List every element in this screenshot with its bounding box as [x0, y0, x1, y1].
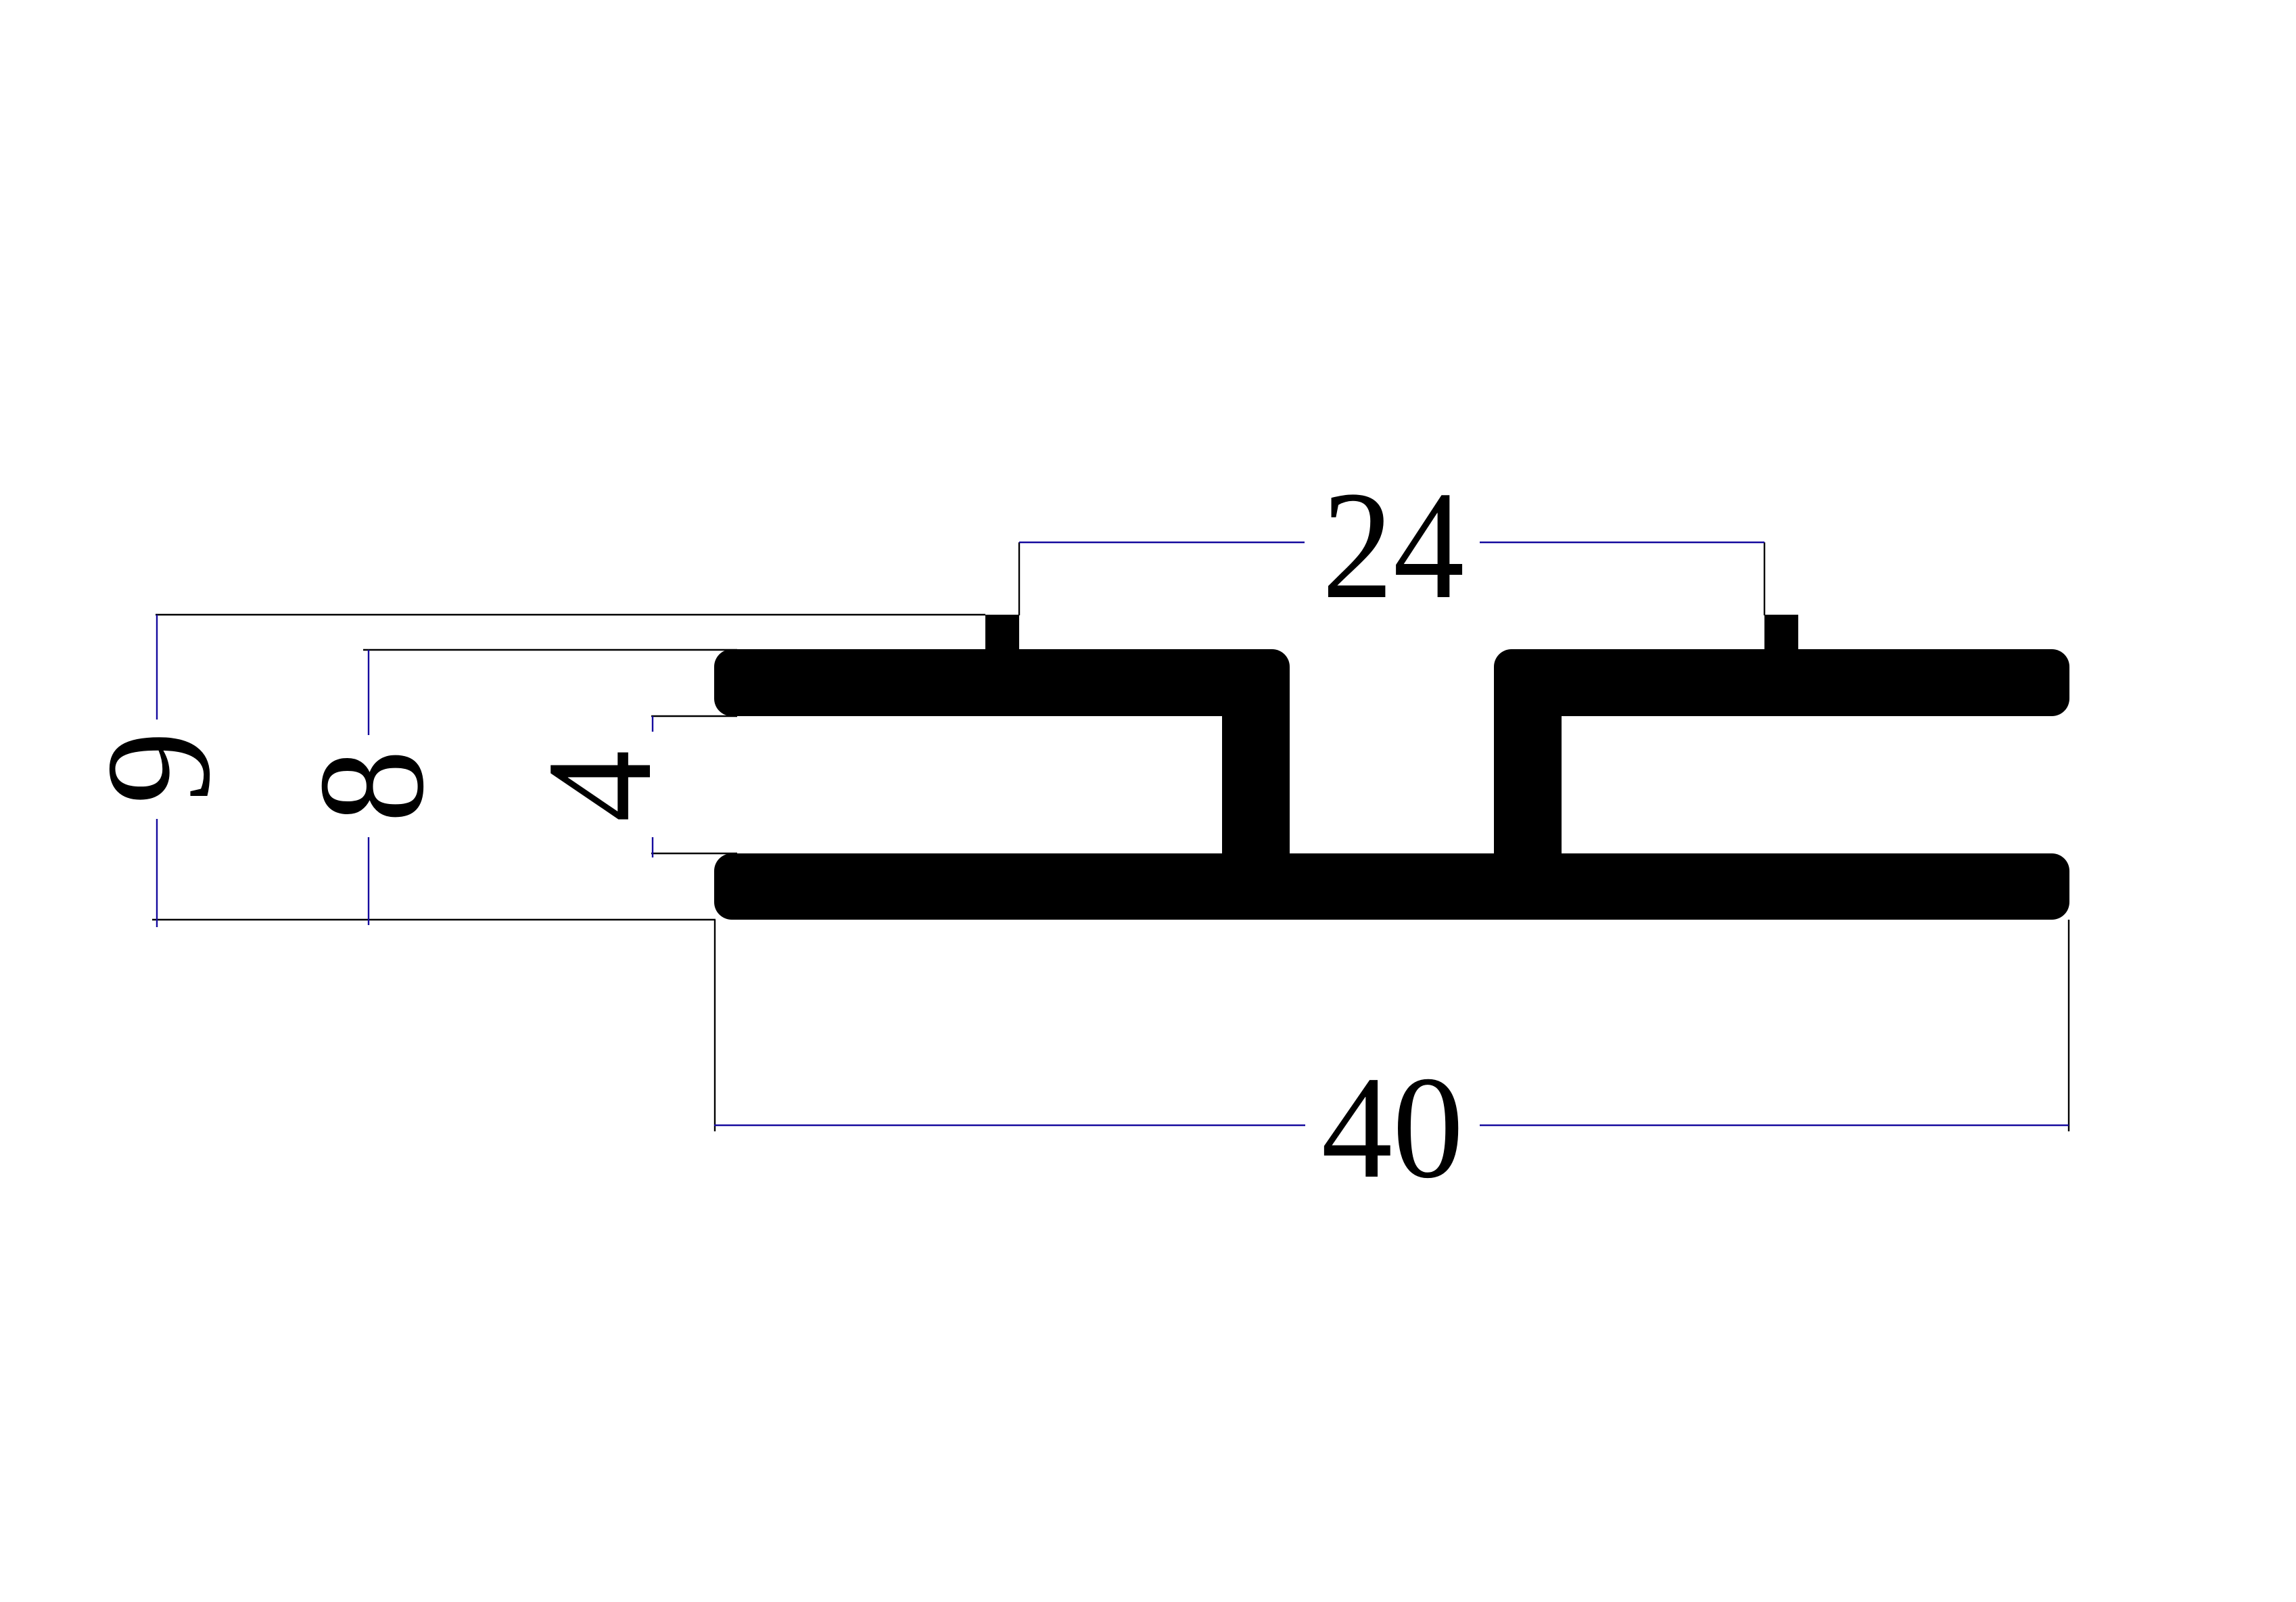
extension line dim24 left [1018, 542, 1020, 615]
dimension line 9 upper segment [156, 615, 158, 720]
extension line dim40 right [2068, 920, 2069, 1131]
profile left locating tab [985, 615, 1019, 652]
profile left web post [1222, 683, 1290, 853]
profile top-right flange bar [1494, 649, 2069, 716]
profile bottom bar [714, 853, 2069, 920]
svg-text:9: 9 [76, 731, 241, 804]
dimension line 40 right segment [1480, 1125, 2069, 1126]
svg-text:24: 24 [1322, 459, 1465, 631]
dimension line 4 upper segment [652, 716, 653, 732]
extension line dim24 right [1764, 542, 1765, 615]
extension line dim4 bottom [651, 853, 737, 854]
dimension line 4 lower segment [652, 837, 653, 857]
dimension line 40 left segment [714, 1125, 1305, 1126]
extension line dim9 dim8 bottom [152, 919, 716, 920]
svg-text:8: 8 [287, 749, 455, 822]
dimension line 8 lower segment [368, 837, 369, 925]
svg-text:40: 40 [1321, 1047, 1463, 1209]
profile top-left flange bar [714, 649, 1290, 716]
extension line dim40 left [714, 920, 716, 1131]
dimension line 8 upper segment [368, 650, 369, 735]
dimension line 9 lower segment [156, 819, 158, 927]
svg-text:4: 4 [517, 750, 683, 822]
extension line dim8 top [363, 649, 737, 651]
extension line dim9 top [156, 614, 985, 615]
profile right locating tab [1764, 615, 1798, 652]
profile right web post [1494, 683, 1562, 853]
dimension line 24 left segment [1019, 542, 1305, 543]
extension line dim4 top [651, 715, 737, 717]
dimension line 24 right segment [1480, 542, 1764, 543]
